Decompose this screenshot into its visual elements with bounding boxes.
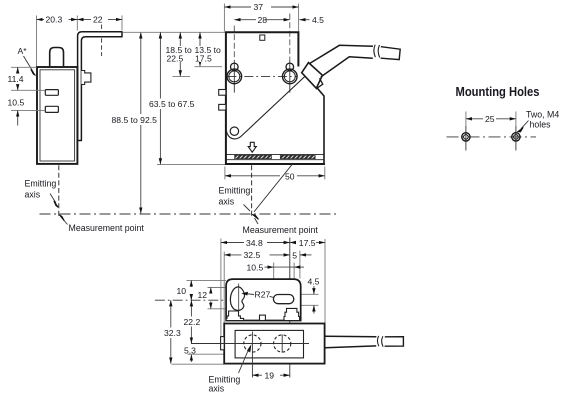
dim 18.5 bottom ref tick [173, 75, 191, 77]
dim 32.5 [224, 254, 241, 256]
mounting hole right (M4) [512, 133, 520, 141]
left circle (dashed) [244, 335, 261, 352]
right mounting hole (keyhole) [283, 69, 298, 84]
cable break marks (bottom) [377, 336, 383, 347]
lens centerline vertical [238, 284, 240, 313]
left screw boss [226, 311, 243, 321]
cable (upper) segment 2 [381, 47, 401, 60]
internal small circle [230, 127, 238, 135]
dim 20.3 [37, 19, 45, 21]
screw head on bracket [81, 71, 91, 85]
dim 11.4 ref line top [11, 66, 37, 68]
dim 28 [234, 19, 256, 21]
dim 32.3 [170, 300, 172, 363]
extension line body right (for 5) [299, 251, 301, 279]
svg-text:25: 25 [485, 114, 495, 124]
svg-text:10.5: 10.5 [8, 97, 25, 107]
dim 12 [210, 288, 212, 294]
svg-text:32.3: 32.3 [164, 328, 181, 338]
right circle vertical centerline [281, 335, 283, 353]
R27 leader right [270, 296, 281, 299]
emitting axis leader (front) [244, 205, 251, 212]
dim 13.5 to 17.5 vertical [199, 32, 201, 66]
cable (bottom view) segment 2 [385, 337, 404, 347]
extension line 17.5 right [324, 239, 326, 323]
svg-text:22.2: 22.2 [184, 317, 201, 327]
dim 4.5 (top) [299, 19, 309, 21]
dim 22.2 [190, 300, 192, 343]
emitting axis leader (bottom) w/ arrow [239, 349, 250, 374]
right circle (dashed) [274, 335, 291, 352]
hole centerlines (dashed, up to 28 dim) [233, 26, 235, 61]
lens (R27) blob [230, 287, 244, 311]
window 1 [45, 90, 58, 96]
left mounting hole (keyhole) [227, 69, 242, 84]
emitting axis (front view, dashed) [251, 165, 253, 216]
svg-text:axis: axis [209, 384, 225, 394]
dim 10.5 arrow [17, 110, 19, 125]
svg-text:22: 22 [93, 15, 103, 25]
dim 18.5 to 22.5 vertical [179, 32, 181, 76]
svg-text:5: 5 [292, 250, 297, 260]
svg-text:4.5: 4.5 [312, 15, 324, 25]
svg-text:34.8: 34.8 [246, 238, 263, 248]
dim 19 [252, 374, 262, 376]
dim 10.5 [265, 266, 274, 268]
dim 63.5 to 67.5 vertical [159, 32, 161, 164]
cable break marks [374, 45, 380, 58]
dim 10 [190, 280, 192, 287]
svg-text:17.5: 17.5 [195, 54, 212, 64]
bottom-left ref line (y=164.6) [157, 164, 225, 166]
gland nut notch [318, 78, 323, 88]
svg-text:17.5: 17.5 [299, 238, 316, 248]
extension line 34.8 left [220, 239, 222, 337]
extension lines 10.5 (pill edges) [274, 263, 294, 293]
sensor body (side) outer [37, 67, 77, 164]
dim 25 ticks [466, 112, 516, 127]
svg-text:4.5: 4.5 [308, 276, 320, 286]
hole centerlines through holes [234, 60, 289, 93]
extension line 32.5 left [223, 252, 225, 324]
upper body (rounded) [226, 279, 301, 320]
hollow down arrow [248, 142, 256, 152]
svg-text:32.5: 32.5 [244, 250, 261, 260]
svg-text:R27: R27 [255, 290, 271, 300]
dim 37 [224, 6, 251, 8]
dim 50 [225, 175, 280, 177]
center tab [260, 315, 266, 320]
top tab (A detail) [50, 48, 64, 68]
left side tabs [219, 90, 226, 96]
flange below gland [317, 88, 324, 163]
left circle vertical centerline [251, 332, 253, 378]
body outline: top, left, bottom [226, 32, 325, 164]
svg-text:Measurement point: Measurement point [69, 223, 145, 233]
dim 25 [466, 118, 483, 120]
measurement point leader [62, 218, 68, 225]
lower body left tab [221, 337, 225, 350]
svg-text:10.5: 10.5 [247, 262, 264, 272]
dim 50 extension lines [225, 167, 325, 180]
bracket centerline (dashed) [101, 25, 103, 57]
svg-text:axis: axis [25, 190, 41, 200]
svg-text:37: 37 [254, 2, 264, 12]
emitting window pill [273, 295, 293, 304]
dim 17.5 [290, 242, 296, 244]
bottom emitting window strip [226, 153, 325, 155]
svg-text:Emitting: Emitting [219, 186, 251, 196]
svg-text:28: 28 [258, 15, 268, 25]
dim 13.5 bottom ref tick [195, 66, 223, 68]
dim 88.5 to 92.5 [140, 32, 142, 213]
svg-text:10: 10 [177, 286, 187, 296]
32.3 bottom ref line [172, 363, 225, 365]
dim 11.4 arrows [17, 67, 19, 73]
svg-text:19: 19 [265, 370, 275, 380]
dim 12 ref lines [208, 288, 242, 309]
dim 20.3 extension lines [37, 16, 123, 67]
internal cable hook curve [226, 75, 306, 139]
svg-text:Emitting: Emitting [25, 179, 57, 189]
window 2 [45, 106, 58, 112]
left dims extension line (top edge, y=32.3) [123, 31, 225, 33]
circles centerline horizontal [191, 343, 309, 345]
dim 37 extension lines [224, 4, 298, 32]
inner rect [235, 330, 303, 358]
left ref line (body top ext) [187, 279, 227, 281]
A* leader [24, 56, 34, 73]
dim 34.8 [221, 242, 244, 244]
svg-text:Two, M4: Two, M4 [526, 110, 559, 120]
svg-text:63.5 to 67.5: 63.5 to 67.5 [149, 99, 195, 109]
5.3 ref line [188, 353, 225, 355]
svg-text:Mounting Holes: Mounting Holes [456, 84, 540, 99]
lower body rect [224, 324, 324, 364]
cable (upper) segment 1 [310, 45, 373, 77]
right screw boss [284, 308, 300, 320]
cable (bottom view) segment 1 [325, 336, 376, 348]
hole vertical centerlines [466, 126, 516, 151]
measurement point axis (vertical) [289, 238, 291, 378]
svg-text:20.3: 20.3 [46, 15, 63, 25]
emitting axis leader [50, 194, 56, 204]
hole crosshair horizontal (dash-dot) [228, 75, 298, 77]
svg-text:holes: holes [530, 120, 552, 130]
measurement point line (dash-dot) [40, 213, 337, 215]
sensor body (side) inner line [40, 70, 75, 161]
svg-text:50: 50 [285, 171, 295, 181]
L bracket [78, 32, 122, 141]
dim 22 [77, 19, 91, 21]
cable gland (45deg) [302, 63, 323, 89]
diagonal projection line to measurement point [254, 165, 292, 212]
hatched window bars [235, 155, 272, 158]
svg-text:11.4: 11.4 [8, 74, 24, 84]
leader to hole [521, 121, 529, 129]
R27 leader left w/ arrow [245, 293, 254, 296]
emitting axis (dashed) [58, 165, 60, 216]
top notch [260, 35, 265, 40]
svg-text:88.5 to 92.5: 88.5 to 92.5 [112, 115, 158, 125]
dim 5 [300, 254, 312, 256]
holes centerline horizontal (dash-dot) [447, 136, 537, 138]
mounting hole left (M4) [462, 133, 470, 141]
svg-text:axis: axis [219, 197, 235, 207]
svg-text:12: 12 [198, 290, 208, 300]
dim 10.5 ref line (window2 center) [11, 109, 45, 111]
lens centerline horizontal [155, 299, 240, 301]
dim 5.3 [184, 346, 197, 356]
svg-text:Measurement point: Measurement point [243, 225, 319, 235]
dim 11.4 ref line bottom (window1 center) [11, 89, 45, 91]
measurement point leader (front) [255, 218, 259, 224]
svg-text:A*: A* [18, 46, 28, 56]
svg-text:22.5: 22.5 [167, 54, 184, 64]
